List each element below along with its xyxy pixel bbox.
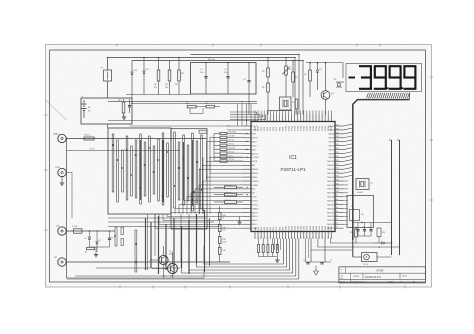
resistor R15 (205, 103, 220, 108)
wire R14 U link (190, 108, 203, 113)
resistor column R34 (218, 220, 225, 232)
wire right rail horizontal (353, 222, 392, 223)
wire mid rail lower (108, 121, 258, 126)
rotary switch second wafer box (171, 129, 207, 229)
wire battery to switch (107, 124, 109, 128)
LCD digit 9 third (403, 66, 416, 89)
wire right rail vertical 1 (389, 140, 392, 255)
jack J2 COM (55, 167, 66, 177)
IC1 right pin row (327, 126, 343, 230)
wire mid crossing rails (108, 218, 220, 227)
diode D3 (316, 63, 321, 90)
resistor R10 (165, 61, 171, 95)
ground COM (60, 177, 64, 186)
transistor Q2 base emitter wires (152, 269, 173, 279)
title block frame (339, 267, 426, 283)
wire bus top corner 3 (294, 58, 296, 115)
border tick marks (44, 44, 433, 289)
diode D1 (85, 231, 91, 247)
wire bottom caps (305, 239, 331, 263)
LCD backplane symbol (334, 79, 344, 87)
diagonal scan wire (46, 100, 67, 120)
capacitor block box (191, 63, 257, 95)
battery B1 box (81, 98, 132, 124)
wire fan segment bundle (344, 124, 353, 177)
jack J4 VOhm (54, 257, 66, 266)
ground bottom caps (314, 266, 319, 276)
crystal X1 (356, 179, 373, 195)
IC1 left pin row (243, 126, 259, 230)
op-amp U1 IC1 FS9711-LP1 body (251, 122, 335, 232)
shunt resistor R0 (84, 135, 94, 141)
ground ladder (237, 216, 241, 224)
title block text model (341, 275, 408, 280)
wire input net bottom (89, 247, 109, 252)
wire caps bottom rail (358, 236, 379, 243)
wire bus top corner 5 (302, 61, 304, 115)
resistor R5 (262, 58, 269, 78)
LCD minus sign (349, 77, 356, 79)
bottom resistor group R50-R54 (258, 239, 279, 257)
diode D4 (373, 242, 392, 249)
border frame inner (50, 50, 426, 282)
wire second rail (67, 149, 181, 151)
LCD digit 3 (359, 66, 372, 89)
wire bottom-left bus corners (67, 239, 299, 280)
diode D10 (131, 61, 137, 99)
LCD digit 9 first (374, 66, 387, 89)
wire J1 branch down (66, 139, 68, 279)
resistor R7 (292, 61, 298, 98)
capacitor C3 (243, 63, 251, 115)
resistor R2 (85, 247, 95, 253)
wire left riser (66, 173, 72, 219)
divider resistor ladder upper (214, 132, 243, 163)
capacitor C10 (355, 223, 360, 237)
wire oscillator top link (306, 62, 343, 78)
LCD zebra connector (367, 93, 410, 99)
wire IC bottom right links (311, 239, 400, 251)
crystal X2 box (280, 97, 295, 110)
transistor Q1 base emitter wires (150, 260, 164, 278)
wire bus top corner 1 (230, 112, 257, 115)
converter block box (347, 196, 374, 228)
wire mid rail (126, 94, 191, 96)
buzzer BZ1 (353, 253, 392, 267)
wire bus top corner 4 (298, 55, 300, 115)
rotary switch dark bars (140, 140, 193, 206)
IC1 bottom pin row (254, 225, 333, 239)
resistor R11 (175, 58, 184, 95)
wire top pin risers (255, 110, 331, 115)
IC1 right pin label column (336, 124, 339, 228)
transistor Q3 (321, 63, 333, 115)
wire riser column to ladder (238, 101, 251, 126)
transistor Q1 (159, 246, 173, 265)
wire switch to bottom rails (148, 210, 210, 272)
transistor Q2 (163, 252, 178, 278)
border frame outer (46, 45, 432, 288)
ground bottom resistors (275, 257, 279, 263)
wire J3 feed (66, 230, 115, 231)
LCD glass outline (346, 64, 422, 92)
resistor column R36 (218, 244, 225, 263)
divider ladder feed lines (207, 134, 215, 181)
resistor R31 (350, 228, 357, 244)
wire top rail 3 (132, 60, 303, 62)
variable resistor VR1 (282, 58, 292, 98)
battery B1 9V (82, 95, 92, 118)
capacitor C1 (200, 63, 208, 95)
resistor R6 (262, 77, 269, 115)
capacitor C7 (320, 260, 332, 264)
wire bus to converter (352, 240, 354, 257)
label R8 47k (208, 59, 216, 61)
wire ladder collect verticals (200, 157, 211, 214)
capacitor C2 (224, 63, 230, 95)
wire IC left pin links (155, 126, 243, 228)
ground input network (94, 253, 98, 257)
title block bottom row text (340, 280, 415, 283)
capacitor C12 (369, 223, 373, 237)
wire left entry corners (230, 115, 266, 120)
resistor column R33 (218, 206, 225, 220)
diode D11 (143, 58, 149, 95)
LCD digit 9 second (389, 66, 402, 89)
fuse F1 (101, 68, 112, 82)
resistor R12 (295, 99, 298, 115)
resistor R14 (186, 103, 206, 108)
resistor R4 (304, 63, 311, 97)
ladder junction dots (246, 133, 247, 195)
resistor R13 (118, 99, 125, 116)
resistor R32 bracket (377, 228, 385, 237)
wire top rail 2 (191, 54, 300, 56)
jack J3 mA (56, 225, 66, 236)
wire top rail 1 (108, 57, 296, 59)
capacitor C5 (108, 230, 113, 247)
LCD decimal points (387, 87, 404, 89)
wire bus top corner 2 (230, 115, 260, 117)
diode D2 (96, 230, 101, 252)
wire mid rail pair upper (108, 102, 257, 104)
rotary switch SW1 outline (108, 128, 171, 214)
wire bottom pin drops (274, 239, 308, 263)
title block text UT30F (340, 270, 384, 273)
capacitor C8 (128, 99, 133, 113)
wire segment bus lower (344, 181, 349, 224)
range resistor group (214, 185, 243, 203)
IC1 top pin row (255, 115, 333, 131)
resistor column R35 (218, 232, 226, 244)
fuse F2 (72, 225, 82, 233)
ground battery (122, 115, 126, 119)
wire J4 feed (66, 261, 230, 262)
LCD bezel bus outline (353, 93, 410, 240)
capacitor C6 (303, 260, 310, 264)
jack J1 10ADC (53, 133, 66, 143)
junction dots top rails (107, 54, 304, 63)
rotary switch contact dots (112, 144, 204, 263)
rotary switch wafer bars (112, 132, 202, 211)
wire battery feed vertical (107, 58, 109, 99)
switch contact bar column mA (115, 227, 137, 272)
rotary switch long contact bars (145, 214, 197, 274)
capacitor C11 (362, 223, 366, 237)
resistor R9 (154, 58, 160, 95)
wire right rail vertical 2 (397, 140, 400, 255)
wire J1 feed (66, 138, 207, 139)
wire bottom long bus (67, 268, 205, 278)
